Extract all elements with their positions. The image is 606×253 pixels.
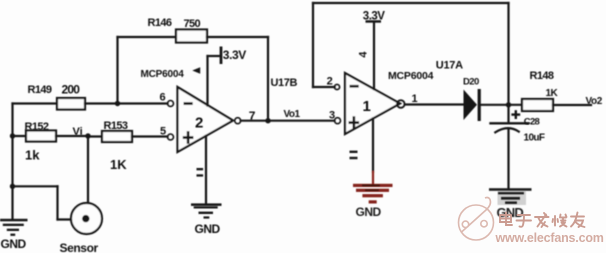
watermark logo circle [459,198,494,241]
wire branch vertical [56,186,58,219]
wire 3.3V U17B vertical [206,56,208,106]
wire R149 left [13,102,58,104]
svg-text:10uF: 10uF [524,132,545,143]
pin 11 marks U17A [350,151,358,160]
svg-text:MCP6004: MCP6004 [141,69,185,80]
wire rail branch horizontal [13,185,58,187]
pin 2 circle [334,84,339,89]
wire Vi to R153 [88,135,102,137]
pin 6 circle [168,101,174,107]
wire R148 to Vo2 [553,104,591,106]
wire U17A output to diode [405,103,464,105]
sensor center dot [82,215,89,222]
wire pin2 horizontal [313,86,335,88]
svg-text:750: 750 [184,18,201,30]
pin 1 output circle [397,100,405,108]
svg-text:R146: R146 [148,17,172,29]
svg-text:2: 2 [327,76,333,88]
wire U17B to ground [205,136,207,204]
pin 4 arrow U17B [192,67,200,73]
capacitor C28 plus sign [511,110,520,119]
svg-text:C28: C28 [524,117,540,128]
svg-text:4: 4 [358,51,370,58]
wire top feedback [313,2,509,4]
ground GND U17B [191,203,222,218]
watermark chinese text [500,213,585,228]
minus sign U17B [184,102,193,105]
wire 3.3V U17A vertical [373,23,375,90]
svg-text:Sensor: Sensor [60,241,99,253]
resistor R153 [102,131,132,142]
svg-text:3.3V: 3.3V [363,11,385,23]
wire right feedback vertical [507,3,509,123]
node junction output U17B [265,118,270,123]
svg-text:R152: R152 [25,121,49,133]
pin 5 circle [168,134,174,140]
wire red segment [372,172,374,184]
node junction R149/feedback [115,101,120,106]
svg-text:GND: GND [1,237,27,251]
svg-text:GND: GND [356,205,382,219]
svg-text:R149: R149 [28,84,52,96]
svg-text:D20: D20 [463,77,479,88]
svg-text:U17A: U17A [436,60,463,72]
svg-text:1K: 1K [546,88,559,99]
sensor circle [71,203,102,234]
wire R153 to pin5 [132,135,168,137]
ground GND U17A red [353,184,393,204]
svg-text:5: 5 [160,125,166,137]
pin 3 circle [335,118,341,124]
power 3.3V U17B tick bar [220,47,223,65]
wire U17A to ground [372,119,374,173]
svg-text:7: 7 [249,109,256,123]
pin 7 output circle [235,118,241,124]
svg-text:U17B: U17B [271,77,298,89]
resistor R146 [176,30,207,43]
ground GND right [489,188,532,205]
svg-text:GND: GND [195,222,221,236]
resistor R152 [26,131,56,142]
resistor R148 [522,99,553,111]
wire R152 left [13,135,27,137]
svg-text:1: 1 [412,93,418,105]
node junction diode/R148/C28 [506,102,511,107]
power 3.3V U17A underline [366,20,382,23]
wire Vi down to sensor [87,136,89,216]
wire branch to sensor [58,218,85,220]
ground GND left [0,219,28,236]
wire R146 left [118,36,177,38]
node Vi [85,133,90,138]
svg-text:1K: 1K [110,157,127,172]
wire feedback right vertical [267,37,269,121]
pin 11 marks U17B [197,168,204,177]
diode D20 [464,89,481,121]
node junction rail/R152 [10,133,15,138]
svg-text:MCP6004: MCP6004 [388,70,434,82]
node junction rail/branch [10,184,15,189]
svg-text:Vi: Vi [73,126,83,138]
wire R146 right [207,36,268,38]
svg-text:R153: R153 [104,120,128,132]
svg-text:1k: 1k [25,147,40,162]
plus sign U17B [183,131,194,144]
wire 3.3V U17B horizontal [208,55,221,57]
svg-text:6: 6 [160,92,166,104]
svg-text:Vo2: Vo2 [586,96,603,107]
op-amp U17B triangle [178,87,234,152]
wire pin2 vertical [312,3,314,87]
svg-text:1: 1 [363,98,371,115]
svg-text:Vo1: Vo1 [284,109,301,120]
svg-text:2: 2 [195,114,203,131]
wire R152 to Vi [56,135,88,137]
wire diode to node [481,104,522,106]
wire R149 to pin6 [85,102,168,104]
wire left rail [11,104,13,220]
capacitor C28 top plate [491,122,529,124]
wire output U17B to pin3 [241,120,335,122]
svg-text:R148: R148 [530,70,554,82]
wire feedback left vertical [116,37,118,104]
svg-text:www.elecfans.com: www.elecfans.com [495,231,604,245]
svg-text:200: 200 [62,83,81,97]
minus sign U17A [350,85,359,88]
plus sign U17A [349,116,360,129]
op-amp U17A triangle [345,73,400,134]
svg-text:3.3V: 3.3V [223,48,246,62]
resistor R149 [57,98,85,110]
capacitor C28 curved plate [495,128,519,132]
wire C28 stem [507,130,509,189]
svg-text:3: 3 [329,109,335,121]
